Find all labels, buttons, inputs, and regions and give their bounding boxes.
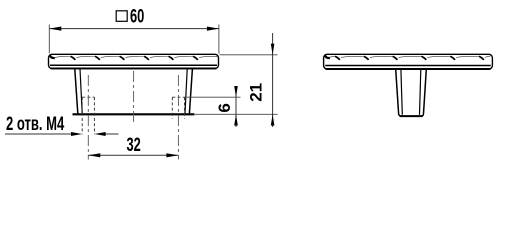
centerline left hole [87,75,89,160]
dimension 60: dimension line [49,28,219,30]
dimension 32: left arrow [88,153,100,157]
hidden hole right (dashed M4) [172,97,184,118]
dimension 32: dimension line [88,154,178,156]
centerline part axis [133,71,135,125]
dimension 21: dimension line [272,33,274,127]
flange (front view) outline [49,54,219,68]
extension line bottom shared by dims 6 and 21 [195,113,278,115]
svg-text:2 отв. М4: 2 отв. М4 [6,112,65,134]
dimension 21: top arrow (outside, pointing down) [271,44,275,55]
label M4: right counter arrow [94,132,118,136]
svg-text:21: 21 [246,83,265,102]
body boss (front view) inner draft lines [80,69,187,113]
serration marks on plate top (side view) [325,55,490,60]
centerline right hole [177,75,179,160]
svg-text:32: 32 [127,133,141,155]
dimension 60: square symbol [116,11,127,21]
dimension 6: dimension line [235,87,237,128]
dimension 6: text (rotated) [215,103,234,112]
dimension 32: right arrow [166,153,178,157]
plate (side view) outline [324,54,493,69]
dimension 21: bottom arrow (outside, pointing up) [271,114,275,125]
dimension 21: text (rotated) [246,83,265,102]
dimension 6: bottom arrow (outside, pointing up) [234,114,238,125]
body boss (front view) outer walls [73,69,195,114]
dimension 32: text [127,133,141,155]
svg-text:60: 60 [130,5,144,27]
label M4: leader line left with arrow [5,132,82,136]
dimension 6: top arrow (outside, pointing down) [234,86,238,97]
label 2 holes M4: text [6,112,65,134]
dimension 60: left arrow [49,27,61,31]
dimension 21: extension line top (flange top) [220,54,278,56]
svg-text:6: 6 [215,103,234,112]
serration marks on flange top (front view) [50,55,218,60]
hidden hole left (dashed M4) [82,97,94,134]
dimension 60: right arrow [207,27,219,31]
stem (side view) outer outline [396,69,427,116]
stem (side view) inner draft lines [401,69,421,115]
dimension 60: text [130,5,144,27]
dimension 6: extension line top (hole depth) [185,96,241,98]
dimension 60: extension lines [49,25,219,54]
